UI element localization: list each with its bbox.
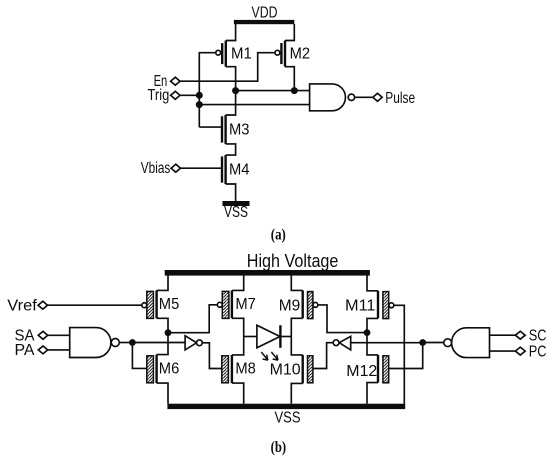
- wire M8 drain to diode node: [232, 337, 244, 355]
- junction dot NAND U2 output node: [129, 339, 136, 346]
- wire HV rail to M9 drain: [291, 275, 302, 290]
- junction dot node at M1/M3: [232, 87, 239, 94]
- transistor M7 gate hatched bar: [222, 291, 229, 318]
- svg-text:M7: M7: [235, 296, 256, 313]
- transistor M5 gate hatched bar: [147, 291, 154, 318]
- transistor M4 gate bar: [221, 156, 223, 182]
- wire M3 source to M4 drain: [226, 144, 236, 155]
- NAND gate U1 body: [310, 84, 346, 111]
- wire M11 gate to VSS: [394, 305, 404, 403]
- Pulse terminal diamond: [373, 93, 382, 101]
- wire SA to NAND: [48, 334, 70, 336]
- junction dot Trig: [196, 92, 203, 99]
- transistor M6 channel: [155, 355, 157, 384]
- wire NAND out node to M6 gate: [132, 343, 146, 369]
- wire M1 gate / M3 gate vertical: [199, 53, 216, 127]
- wire to NAND input 2: [199, 104, 309, 106]
- svg-text:M10: M10: [270, 362, 301, 379]
- light arrow 1: [261, 352, 268, 360]
- Trig terminal diamond: [171, 91, 180, 99]
- wire HV rail to M7 drain: [232, 275, 244, 290]
- inverter U4 triangle (pointing left): [339, 336, 351, 350]
- svg-text:M2: M2: [290, 45, 311, 62]
- transistor M2 channel: [284, 41, 286, 67]
- NAND gate U1 output bubble: [348, 94, 354, 100]
- transistor M12 channel: [377, 355, 379, 383]
- Vbias terminal diamond: [171, 164, 180, 172]
- svg-text:M4: M4: [229, 162, 250, 179]
- inverter U3 triangle: [185, 336, 197, 350]
- svg-text:SC: SC: [529, 327, 547, 344]
- transistor M3 gate bar: [221, 116, 223, 142]
- wire M10 source to VSS: [291, 383, 302, 403]
- svg-text:Trig: Trig: [148, 87, 170, 104]
- wire M6 source to VSS: [157, 383, 168, 404]
- svg-text:M5: M5: [159, 296, 180, 313]
- wire inverter U3 output to M8 gate: [202, 343, 221, 369]
- transistor M11 channel: [377, 291, 379, 319]
- wire En to M2 gate: [180, 53, 275, 81]
- wire PA to NAND: [48, 349, 70, 351]
- transistor M11 gate hatched bar: [383, 292, 389, 319]
- NAND gate U2 output bubble: [111, 339, 119, 347]
- transistor M5 channel: [155, 290, 157, 318]
- wire node B to M12 drain: [367, 333, 378, 355]
- transistor M10 channel: [302, 355, 304, 384]
- PC terminal diamond: [515, 347, 525, 355]
- wire M1 source to node: [226, 67, 236, 91]
- transistor M8 gate hatched bar: [222, 356, 229, 383]
- wire node A to M6 drain: [157, 333, 168, 355]
- wire M9 gate to node B: [318, 305, 364, 333]
- transistor M7 channel: [231, 290, 233, 318]
- PA terminal diamond: [38, 346, 47, 354]
- NAND gate U2 body: [70, 328, 111, 358]
- wire VDD to M2 drain: [285, 24, 294, 41]
- svg-text:(a): (a): [271, 227, 286, 244]
- svg-text:M9: M9: [279, 298, 301, 315]
- wire M3 gate: [199, 126, 221, 128]
- wire Vbias to M4 gate: [181, 167, 222, 169]
- transistor M10 gate hatched bar: [308, 356, 313, 383]
- transistor M1 gate bubble: [216, 50, 221, 55]
- inverter U3 output bubble: [197, 340, 203, 346]
- diode D1 cathode bar: [279, 325, 281, 348]
- wire HV rail to M5 drain: [157, 275, 168, 290]
- wire M11 source to node B: [367, 318, 378, 332]
- transistor M5 gate bubble: [142, 303, 147, 308]
- wire HV rail to M11 drain: [367, 275, 378, 290]
- wire M4 source to VSS: [226, 184, 236, 201]
- wire node A to M7 gate: [168, 305, 217, 333]
- junction dot NAND input 2: [196, 101, 203, 108]
- svg-text:Vbias: Vbias: [141, 160, 171, 177]
- wire M5 source to node A: [157, 318, 168, 332]
- svg-text:VSS: VSS: [224, 204, 248, 221]
- SC terminal diamond: [515, 331, 525, 339]
- wire node line to NAND input 1: [236, 90, 310, 92]
- transistor M1 channel: [225, 41, 227, 67]
- inverter U4 output bubble: [333, 340, 339, 346]
- wire M2 source to node: [285, 67, 294, 91]
- svg-text:Pulse: Pulse: [385, 90, 415, 107]
- transistor M7 gate bubble: [217, 302, 222, 307]
- En terminal diamond: [171, 77, 180, 85]
- transistor M9 gate hatched bar: [308, 292, 313, 319]
- wire Vref to M5 gate: [48, 304, 142, 306]
- transistor M9 channel: [302, 290, 304, 318]
- transistor M2 gate bar: [280, 43, 282, 64]
- wire M9 source to mid node: [291, 318, 302, 336]
- svg-text:M8: M8: [235, 361, 256, 378]
- wire M12 source to VSS: [367, 383, 378, 404]
- VSS rail bar figure a: [223, 201, 250, 206]
- wire NAND U5 input PC: [490, 350, 516, 352]
- svg-text:M6: M6: [159, 361, 180, 378]
- svg-text:PA: PA: [15, 342, 36, 359]
- junction dot right node: [419, 339, 426, 346]
- wire diode cathode to M9/M10 node: [280, 336, 291, 338]
- junction dot node at M2: [291, 87, 298, 94]
- wire right node to NAND U5 bubble: [423, 342, 444, 344]
- wire diode anode: [244, 336, 257, 338]
- svg-text:Vref: Vref: [7, 298, 37, 315]
- wire M10 drain to mid node: [291, 337, 302, 355]
- transistor M3 channel: [224, 115, 226, 144]
- svg-text:M12: M12: [346, 363, 377, 380]
- transistor M9 gate bubble: [313, 302, 318, 307]
- VSS rail bar figure b: [167, 404, 405, 409]
- wire M7 source to diode node: [232, 318, 244, 336]
- wire NAND U2 output to node: [119, 342, 132, 344]
- junction node A dot: [165, 329, 172, 336]
- wire node to inverter U3 input: [132, 342, 185, 344]
- wire NAND output to Pulse: [355, 96, 373, 98]
- svg-text:M11: M11: [345, 298, 376, 315]
- wire inverter U4 output to M10 gate: [313, 343, 333, 369]
- light arrow 2: [271, 352, 278, 360]
- NAND gate U5 body (mirrored): [452, 328, 490, 358]
- transistor M8 channel: [231, 355, 233, 383]
- wire node to M3 drain: [226, 91, 236, 115]
- transistor M6 gate hatched bar: [147, 356, 154, 383]
- svg-text:VDD: VDD: [252, 4, 278, 21]
- svg-text:High Voltage: High Voltage: [247, 251, 339, 271]
- wire Trig to M1 gate vertical: [180, 94, 199, 96]
- High Voltage rail bar: [165, 270, 370, 276]
- NAND gate U5 output bubble: [444, 339, 452, 347]
- wire right node to inverter U4 input: [351, 342, 420, 344]
- wire NAND U5 input SC: [490, 334, 516, 336]
- diode D1 triangle: [257, 325, 280, 348]
- svg-text:M3: M3: [229, 121, 250, 138]
- transistor M12 gate hatched bar: [383, 356, 389, 383]
- SA terminal diamond: [38, 331, 47, 339]
- wire M8 source to VSS: [232, 383, 244, 404]
- svg-text:(b): (b): [271, 439, 287, 456]
- wire VDD to M1 drain: [226, 24, 236, 41]
- transistor M4 channel: [224, 155, 226, 184]
- junction node B dot: [364, 329, 371, 336]
- wire M12 gate to right node: [389, 343, 423, 369]
- VDD rail bar: [234, 20, 294, 24]
- transistor M2 gate bubble: [275, 50, 280, 55]
- svg-text:PC: PC: [529, 343, 547, 360]
- transistor M11 gate bubble: [389, 303, 394, 308]
- svg-text:M1: M1: [231, 45, 252, 62]
- svg-text:VSS: VSS: [275, 409, 301, 426]
- transistor M1 gate bar: [221, 43, 223, 64]
- Vref terminal diamond: [38, 301, 47, 309]
